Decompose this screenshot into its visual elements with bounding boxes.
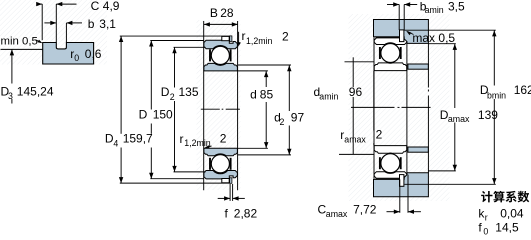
svg-text:2: 2	[280, 117, 285, 127]
svg-text:0: 0	[74, 53, 79, 63]
svg-text:0: 0	[483, 226, 488, 236]
housing bottom block	[374, 173, 429, 197]
svg-text:96: 96	[349, 85, 363, 99]
svg-text:85: 85	[260, 87, 274, 101]
svg-text:amax: amax	[326, 209, 348, 219]
inner ring bottom half	[204, 148, 238, 156]
svg-text:7,72: 7,72	[353, 203, 377, 217]
right inner ring top	[374, 63, 407, 71]
svg-text:amin: amin	[425, 5, 444, 15]
dimension D2 135	[161, 47, 206, 172]
svg-text:C: C	[91, 0, 100, 13]
right bearing face lines	[374, 38, 407, 178]
bearing axis centerline	[201, 108, 240, 110]
svg-text:159,7: 159,7	[123, 132, 153, 146]
hatch zone middle figure	[197, 20, 241, 190]
right ball top	[381, 44, 400, 63]
svg-text:4: 4	[113, 138, 118, 148]
svg-text:d: d	[250, 87, 257, 101]
svg-text:1,2min: 1,2min	[184, 138, 211, 148]
svg-text:2: 2	[282, 29, 289, 43]
outer ring groove detail block	[43, 43, 94, 65]
right outer ring top	[374, 38, 407, 45]
svg-text:14,5: 14,5	[495, 221, 519, 235]
label r0 0,6 inside block	[70, 47, 102, 63]
hatch zone right figure	[349, 14, 450, 201]
shaft abutment spacer top	[408, 64, 428, 69]
svg-text:r: r	[180, 132, 184, 146]
ball bottom	[211, 155, 229, 173]
svg-text:D: D	[161, 85, 170, 99]
right snap ring top	[400, 30, 404, 42]
svg-text:1,2min: 1,2min	[246, 36, 273, 46]
dimension b 3,1	[44, 17, 116, 43]
svg-text:r: r	[242, 29, 246, 43]
dimension D4 159,7	[105, 36, 230, 183]
housing right face line	[427, 43, 429, 172]
hatch pattern defs	[0, 0, 1, 1]
cage top	[210, 49, 231, 61]
svg-text:145,24: 145,24	[17, 84, 54, 98]
dimension d_amin 96	[314, 57, 375, 154]
svg-text:139: 139	[478, 108, 498, 122]
right inner ring bottom	[374, 146, 407, 154]
svg-text:2: 2	[220, 131, 227, 145]
hatch zone left detail	[0, 0, 107, 65]
svg-text:162: 162	[514, 83, 531, 97]
bearing face lines (B extension lines)	[204, 21, 238, 190]
dimension d2 97	[238, 65, 305, 155]
svg-text:150: 150	[153, 107, 173, 121]
dimension r_amax 2	[340, 71, 382, 145]
svg-text:3,5: 3,5	[448, 0, 465, 13]
dimension f 2,82	[218, 184, 258, 220]
snap ring in groove top	[230, 36, 232, 42]
right snap ring bottom	[400, 175, 404, 187]
svg-text:135: 135	[179, 85, 199, 99]
label max 0,5 with leader	[406, 31, 455, 45]
dimension D_bmin 162	[404, 30, 531, 184]
svg-text:r: r	[485, 213, 488, 223]
right cage top	[380, 47, 401, 59]
right outer ring bottom	[374, 172, 407, 179]
cage bottom	[210, 158, 231, 170]
svg-text:B: B	[210, 6, 218, 20]
dimension C 4,9	[36, 0, 120, 42]
dimension D_amax 139	[428, 44, 498, 171]
label r1,2min 2 bottom with leader	[180, 131, 227, 148]
svg-text:min 0,5: min 0,5	[1, 36, 38, 48]
svg-text:97: 97	[291, 111, 305, 125]
svg-text:0,04: 0,04	[500, 207, 524, 221]
svg-text:2: 2	[376, 128, 383, 142]
outer ring top half	[204, 40, 238, 48]
outer ring bottom half	[204, 171, 238, 179]
snap ring body bottom	[222, 179, 229, 183]
right cage bottom	[380, 157, 401, 169]
svg-text:3,1: 3,1	[99, 17, 116, 31]
label r1,2min 2 top with leader	[238, 29, 289, 47]
svg-text:bmin: bmin	[487, 90, 506, 100]
svg-text:0,6: 0,6	[85, 47, 102, 61]
svg-text:4,9: 4,9	[103, 0, 120, 13]
right axis centerline	[351, 106, 431, 108]
dimension d 85	[238, 71, 274, 148]
svg-text:D: D	[139, 107, 148, 121]
calculation factors heading &#35745;&#31639;&#31995;&#25968;	[481, 191, 529, 203]
svg-text:3: 3	[8, 91, 13, 101]
svg-text:2: 2	[170, 92, 175, 102]
housing bore line left of slot	[374, 36, 400, 38]
svg-text:2,82: 2,82	[234, 206, 258, 220]
svg-text:max 0,5: max 0,5	[412, 31, 455, 45]
snap ring body top	[222, 36, 229, 40]
factor k_r 0,04	[478, 207, 523, 223]
svg-text:amax: amax	[344, 135, 366, 145]
dimension b_amin 3,5	[387, 0, 465, 30]
shaft abutment spacer bottom	[408, 147, 428, 152]
factor f0 14,5	[478, 221, 519, 237]
ball top	[211, 46, 229, 64]
dimension B 28	[204, 6, 238, 27]
inner ring top half	[204, 63, 238, 71]
right ball bottom	[381, 154, 400, 173]
label min 0,5 with leader	[1, 36, 43, 48]
svg-text:amin: amin	[319, 92, 338, 102]
housing top block	[374, 20, 429, 44]
dimension C_amax 7,72	[318, 175, 421, 219]
svg-text:amax: amax	[448, 114, 470, 124]
svg-text:b: b	[88, 17, 95, 31]
snap ring in groove bottom	[230, 178, 232, 184]
dimension D3 145,24	[1, 49, 54, 103]
dimension D 150	[139, 41, 204, 179]
svg-text:28: 28	[220, 6, 234, 20]
housing bore line bottom	[374, 178, 400, 180]
